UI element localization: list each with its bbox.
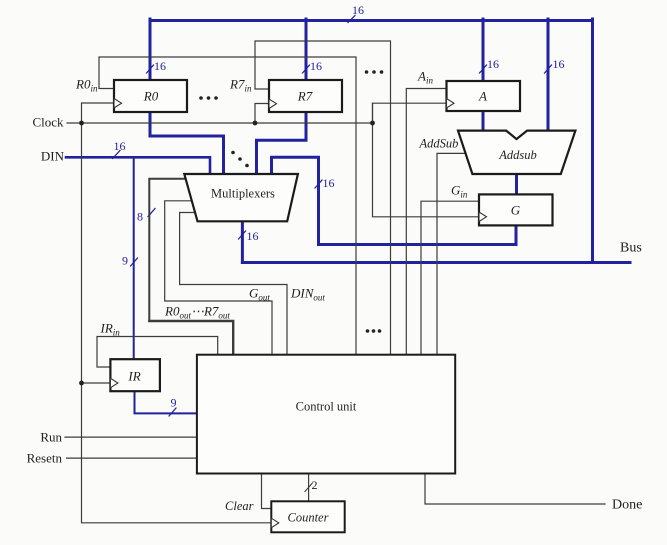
- wire Addsub output to G: [515, 174, 518, 195]
- register G: [479, 194, 553, 225]
- wire R7in from control unit: [255, 41, 391, 355]
- svg-text:2: 2: [312, 478, 318, 492]
- register A: [447, 81, 521, 111]
- svg-text:Clear: Clear: [225, 499, 254, 513]
- label 16 top bus: [348, 3, 364, 23]
- svg-text:16: 16: [323, 176, 335, 190]
- wire R0in from control unit: [99, 57, 356, 355]
- wire Run input: [65, 436, 197, 438]
- svg-text:Resetn: Resetn: [27, 451, 63, 466]
- svg-text:A: A: [478, 89, 487, 104]
- wire bus top horizontal: [150, 19, 593, 22]
- wire IRin from control unit: [97, 337, 218, 368]
- clock triangle R7: [269, 99, 277, 109]
- label 16 R0 drop: [147, 59, 167, 73]
- svg-text:16: 16: [352, 3, 364, 17]
- Addsub ALU shape: [458, 131, 575, 174]
- junction dot clock R7: [253, 121, 258, 126]
- wire mux select 8 bundle: [149, 179, 186, 321]
- svg-text:8: 8: [137, 210, 143, 224]
- wire clock to IR and counter: [82, 123, 272, 523]
- label 16 mux output: [239, 229, 259, 243]
- junction dot clock A/G: [370, 121, 375, 126]
- svg-text:IR: IR: [127, 369, 140, 384]
- dots above control unit: [366, 329, 382, 333]
- wire clock to A: [373, 103, 447, 123]
- label 16 DIN: [113, 139, 126, 159]
- label 16 A drop: [480, 57, 500, 73]
- svg-text:Clock: Clock: [32, 115, 64, 130]
- wire G output to mux: [272, 157, 517, 244]
- svg-text:Counter: Counter: [288, 511, 329, 525]
- wire clock to G: [373, 103, 480, 217]
- dots mux inputs diagonal: [231, 151, 249, 168]
- svg-text:16: 16: [154, 59, 166, 73]
- wire A output to Addsub: [482, 111, 485, 131]
- dots R1in R6in top: [365, 70, 384, 74]
- wire IR output to control unit: [135, 391, 197, 413]
- wire Gout select: [165, 201, 272, 355]
- svg-text:G: G: [511, 203, 521, 218]
- wire Done output: [425, 474, 605, 505]
- wire multiplexers output to bus: [241, 221, 244, 262]
- wire clock to R7: [255, 104, 269, 124]
- junction dot clock IR: [79, 381, 84, 386]
- register IR: [110, 359, 159, 391]
- wire Ain from control unit: [406, 89, 446, 355]
- label 2 counter: [305, 478, 318, 492]
- wire bus drop to R0: [149, 19, 152, 80]
- label 9 DIN IR: [122, 254, 138, 268]
- label 8 mux select: [137, 209, 155, 224]
- svg-text:9: 9: [122, 254, 128, 268]
- junction dot clock R0/IR: [79, 121, 84, 126]
- wire DINout select: [180, 213, 287, 355]
- svg-text:16: 16: [553, 57, 565, 71]
- wire counter output 2 to control unit: [308, 474, 310, 502]
- svg-text:R0: R0: [143, 89, 159, 104]
- label 16 G riser: [315, 176, 335, 190]
- clock triangle counter: [271, 518, 279, 528]
- clock triangle R0: [114, 99, 122, 109]
- wire DIN branch to IR: [133, 157, 135, 359]
- register R7: [269, 80, 342, 112]
- svg-text:9: 9: [171, 396, 177, 410]
- register R0: [114, 80, 187, 112]
- wire bus right riser: [591, 19, 594, 263]
- multiplexers trapezoid: [184, 174, 298, 221]
- wire AddSub from control unit: [437, 153, 464, 354]
- label 16 R7 drop: [303, 59, 323, 73]
- wire bus drop to Addsub right input: [547, 19, 550, 132]
- svg-text:R7: R7: [297, 89, 313, 104]
- svg-text:16: 16: [114, 139, 126, 153]
- wire R7 output to mux: [257, 112, 307, 174]
- control unit box: [197, 355, 455, 474]
- counter box: [271, 501, 344, 532]
- wire DIN input: [66, 157, 210, 174]
- clock triangle A: [447, 99, 455, 109]
- svg-text:Done: Done: [612, 498, 642, 513]
- wire clock to IR stub: [82, 382, 111, 384]
- svg-text:Addsub: Addsub: [498, 148, 537, 162]
- wire Resetn input: [67, 457, 197, 459]
- svg-text:16: 16: [487, 57, 499, 71]
- svg-text:Bus: Bus: [620, 241, 642, 256]
- wire Bus bottom horizontal: [242, 261, 630, 264]
- svg-text:DIN: DIN: [41, 149, 65, 164]
- clock triangle G: [479, 212, 487, 222]
- wire bus drop to R7: [305, 19, 308, 80]
- wire R0 output to mux: [150, 112, 224, 174]
- svg-text:Multiplexers: Multiplexers: [211, 187, 275, 201]
- svg-text:16: 16: [310, 59, 322, 73]
- wire Clear to counter: [262, 474, 272, 509]
- svg-text:16: 16: [247, 229, 259, 243]
- wire Gin from control unit: [421, 201, 479, 355]
- svg-text:AddSub: AddSub: [419, 137, 459, 151]
- svg-text:Run: Run: [40, 430, 62, 445]
- wire bus drop to A: [482, 19, 485, 81]
- svg-text:Control unit: Control unit: [296, 400, 357, 414]
- wire clock main: [67, 122, 373, 124]
- clock triangle IR: [110, 378, 118, 388]
- wire mux select 8 bundle to control unit: [149, 321, 233, 355]
- dots between R0 and R7: [199, 96, 218, 100]
- label 9 IR out: [169, 396, 177, 417]
- wire clock to R0: [82, 103, 115, 123]
- label 16 Addsub drop: [545, 57, 565, 73]
